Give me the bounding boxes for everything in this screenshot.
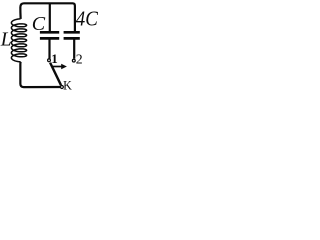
svg-text:4C: 4C [76,9,98,31]
svg-text:C: C [32,13,46,35]
capacitor 4C plates [64,32,80,38]
capacitor C plates [40,32,59,38]
inductor L coil [11,19,26,62]
arrow: switch throw direction from 1 to 2 [52,66,62,68]
switch K lever [50,63,61,86]
svg-text:1: 1 [51,51,58,66]
wire: bottom rail to switch pivot [20,62,60,87]
capacitor C bottom lead [48,39,50,58]
switch K pivot node [60,86,63,89]
wire: left riser, top rail and 4C top lead [20,3,75,31]
svg-text:L: L [0,29,12,50]
capacitor C top lead [49,3,51,31]
switch contact node 1 [48,59,51,62]
svg-text:2: 2 [76,51,83,66]
capacitor 4C bottom lead [73,39,75,58]
svg-text:K: K [63,79,72,93]
switch contact node 2 [72,59,75,62]
